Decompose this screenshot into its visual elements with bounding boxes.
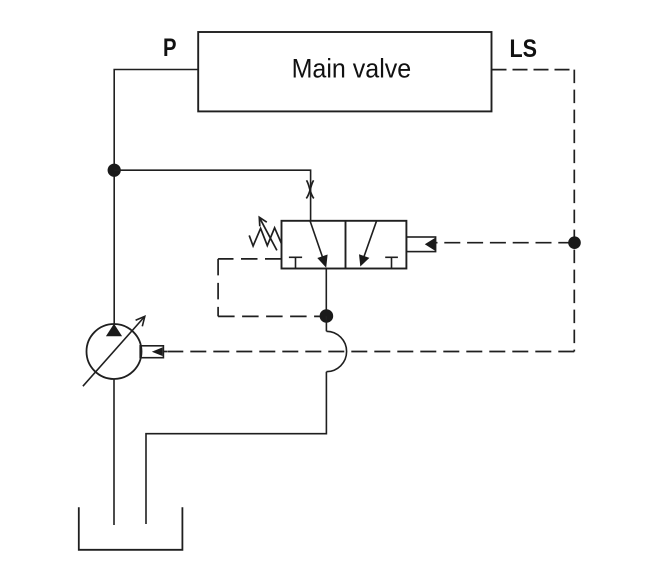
wire: branch from P junction to compensator inlet <box>114 170 310 221</box>
svg-text:P: P <box>163 34 177 62</box>
wire: compensator outlet to junction <box>325 269 327 317</box>
left position: flow arrow <box>310 221 328 268</box>
orifice (restrictor X) on compensator pilot line <box>306 180 314 198</box>
svg-text:LS: LS <box>510 35 538 63</box>
right position: blocked port T <box>385 257 398 268</box>
pump: variable displacement arrow <box>83 316 145 386</box>
left position: blocked port T <box>289 257 302 268</box>
tank <box>79 507 183 550</box>
wire: crossover hop (arc over LS dashed line) <box>326 331 346 371</box>
main valve block <box>198 32 491 111</box>
pump: variable displacement pump circle <box>87 324 142 379</box>
wire: P line from main valve down to pump <box>114 70 198 325</box>
compensator valve body (2-position 3-way) <box>282 221 407 269</box>
pump: outlet flow triangle <box>106 324 122 336</box>
pump: stroking actuator box <box>140 346 163 358</box>
dashed pilot loop: valve left side to outlet junction <box>218 259 320 317</box>
node: LS junction <box>568 236 581 249</box>
node: junction compensator outlet / left pilot loop <box>320 309 334 323</box>
svg-text:Main valve: Main valve <box>292 54 412 84</box>
wire: pump suction to tank <box>113 379 115 525</box>
adjustable spring (left of compensator) <box>249 228 281 246</box>
pilot actuator (right of compensator) <box>406 237 435 252</box>
wire: hop down and left to tank return <box>146 372 326 524</box>
spring adjustment arrow <box>259 217 277 250</box>
wire: junction down to crossover hop <box>325 316 327 331</box>
LS dashed line: main valve to LS network <box>163 70 574 352</box>
right position: flow arrow <box>359 221 377 267</box>
node: junction P line / compensator branch <box>108 164 121 177</box>
